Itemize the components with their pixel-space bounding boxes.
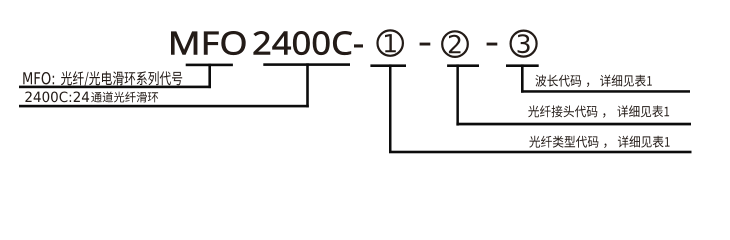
circled number 3 (511, 31, 537, 57)
fiber type label part 2 (618, 136, 670, 148)
label text 24ch CJK (91, 92, 158, 103)
label text "MFO: " latin (23, 72, 54, 84)
label text "2400C:24" latin (25, 92, 89, 103)
underline of label MFO series (19, 86, 211, 89)
connector label part 2 (617, 105, 669, 117)
title text "2400C-" (254, 31, 363, 55)
underline of label 2400C channels (19, 105, 309, 108)
hyphen between 1 and 2 (420, 43, 431, 46)
fiber type label part 1 (529, 136, 606, 148)
wire down from 2400C underline (306, 63, 309, 107)
underline under 2400C (263, 63, 350, 66)
underline of connector label (456, 123, 691, 126)
wavelength label part 2 (600, 75, 652, 87)
title text "MFO" (171, 31, 245, 55)
label text fiber series CJK (61, 71, 182, 87)
circled number 1 (378, 30, 403, 55)
underline under circle 3 (506, 64, 539, 67)
wire down from circle 2 (456, 64, 459, 125)
underline under circle 1 (370, 64, 406, 67)
connector label part 1 (528, 105, 605, 117)
wire down from circle 3 (521, 64, 524, 92)
wavelength label part 1 (535, 75, 589, 87)
circled number 2 (442, 31, 468, 57)
underline under MFO (186, 64, 233, 67)
hyphen between 2 and 3 (487, 43, 498, 46)
underline under circle 2 (447, 64, 479, 67)
underline of wavelength label (521, 90, 690, 93)
underline of fiber type label (389, 151, 692, 154)
wire down from MFO underline (208, 64, 211, 89)
wire down from circle 1 (389, 64, 392, 153)
